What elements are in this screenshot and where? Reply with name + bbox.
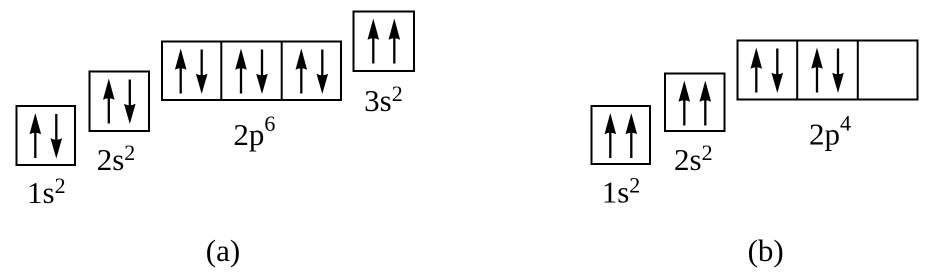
electron down arrow 1s (a) bbox=[51, 114, 63, 159]
orbital box 3s (a) bbox=[354, 12, 415, 72]
orbital row 2p (a) bbox=[162, 42, 341, 101]
electron down arrow 2s (a) bbox=[124, 80, 136, 125]
electron down arrow 2p cell 2 (a) bbox=[256, 50, 268, 95]
electron down arrow 2p cell 1 (a) bbox=[196, 50, 208, 95]
electron up arrow 2 of 3s (a) bbox=[389, 19, 401, 64]
electron down arrow 2p cell 3 (a) bbox=[317, 50, 329, 95]
electron up arrow 2p cell 2 (b) bbox=[811, 48, 823, 93]
electron up arrow 1s (a) bbox=[30, 113, 42, 158]
electron up arrow 2 of 1s (b) bbox=[626, 113, 638, 158]
2p cell divider 1 (a) bbox=[220, 42, 222, 101]
2p cell divider 2 (b) bbox=[857, 41, 859, 100]
electron up arrow 2p cell 2 (a) bbox=[235, 49, 247, 94]
orbital row 2p (b) bbox=[738, 41, 918, 100]
2p cell divider 2 (a) bbox=[281, 42, 283, 101]
electron up arrow 2p cell 3 (a) bbox=[296, 49, 308, 94]
svg-text:(a): (a) bbox=[206, 233, 240, 268]
orbital box 2s (a) bbox=[90, 72, 150, 132]
orbital box 1s (b) bbox=[592, 106, 651, 164]
electron up arrow 2s (a) bbox=[103, 79, 115, 124]
svg-text:(b): (b) bbox=[748, 233, 784, 268]
electron down arrow 2p cell 2 (b) bbox=[832, 49, 844, 94]
electron up arrow 1 of 1s (b) bbox=[605, 113, 617, 158]
orbital box 2s (b) bbox=[665, 74, 725, 132]
electron up arrow 1 of 3s (a) bbox=[368, 19, 380, 64]
electron up arrow 2p cell 1 (b) bbox=[751, 48, 763, 93]
electron down arrow 2p cell 1 (b) bbox=[772, 49, 784, 94]
electron up arrow 2p cell 1 (a) bbox=[175, 49, 187, 94]
orbital box 1s (a) bbox=[17, 106, 76, 165]
2p cell divider 1 (b) bbox=[796, 41, 798, 100]
electron up arrow 2 of 2s (b) bbox=[700, 81, 712, 126]
electron up arrow 1 of 2s (b) bbox=[679, 81, 691, 126]
